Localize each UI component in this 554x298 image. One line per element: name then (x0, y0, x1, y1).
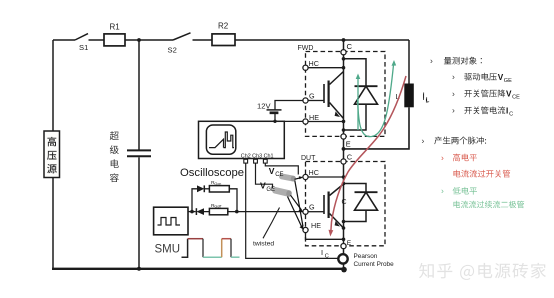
annotation 驱动电压 (464, 73, 497, 81)
SMU pulse icon (158, 218, 181, 226)
svg-text:twisted: twisted (253, 240, 274, 247)
wire DUT gate (308, 211, 324, 213)
svg-text:V: V (498, 73, 504, 82)
IGBT DUT emitter arrow (335, 221, 340, 227)
pin G terminal circle (FWD) (303, 98, 308, 103)
svg-text:CE: CE (512, 95, 520, 101)
wire Rgon to right post (229, 189, 237, 212)
wire right vertical upper (408, 40, 410, 84)
SMU box (154, 207, 188, 235)
FWD module dashed box (306, 52, 386, 137)
wire gate drive to DUT G (204, 211, 303, 213)
pin HC terminal circle (DUT) (303, 174, 308, 179)
annotation 开关管压降 (464, 90, 505, 98)
svg-text:S1: S1 (79, 43, 88, 52)
pin Ch3 stub (255, 158, 257, 161)
svg-text:FWD: FWD (298, 45, 314, 52)
oscilloscope screen icon (206, 125, 235, 154)
wire HE to line (FWD) (308, 121, 344, 123)
pointer twisted line (263, 208, 280, 239)
node bottom rail end (341, 267, 347, 273)
svg-text:V: V (269, 166, 275, 176)
wire left vertical lower (52, 178, 54, 269)
annotation 高电平 red (453, 154, 477, 162)
IGBT U-FWD gate wire (308, 100, 324, 102)
switch S2 (173, 33, 191, 40)
resistor RGon (209, 186, 229, 192)
wire Ch2 to Pearson probe (246, 163, 338, 258)
label 高压源 text (47, 137, 56, 147)
wire battery minus to HE rail (274, 113, 276, 122)
wire HC to line (DUT) (308, 176, 344, 178)
label 超级电容 char4 (110, 173, 119, 182)
pin Ch1 stub (264, 158, 266, 161)
pin HE terminal circle (DUT) (303, 227, 308, 232)
wire Rgon branch up (192, 189, 197, 212)
svg-text:HC: HC (309, 168, 319, 177)
wire R1 to S2 (125, 39, 173, 41)
transistor IGBT FWD (323, 84, 325, 103)
svg-text:Current Probe: Current Probe (354, 261, 395, 268)
probe lead VCE- to HE (295, 181, 303, 227)
diode D-on (197, 185, 204, 192)
svg-text:G: G (309, 202, 315, 211)
Pearson current probe ring (338, 254, 347, 263)
svg-text:GE: GE (266, 187, 275, 193)
annotation 电流流过续流二极管 green (454, 201, 525, 209)
DUT module dashed box (306, 162, 386, 246)
resistor R1 (104, 34, 125, 46)
probe VGE head (272, 186, 293, 197)
svg-text:C: C (347, 42, 353, 51)
annotation 产生两个脉冲 (434, 137, 486, 145)
pin G terminal circle (DUT) (303, 209, 308, 214)
green current arrow through diode (357, 76, 359, 130)
wire middle bridge vertical (343, 40, 345, 268)
label 超级电容 char1 (110, 131, 119, 140)
IGBT FWD emitter arrow (335, 111, 340, 117)
switch S1 (75, 34, 88, 40)
svg-text:Pearson: Pearson (354, 253, 378, 260)
svg-text:I: I (423, 91, 425, 101)
svg-text:Goff: Goff (214, 205, 222, 209)
label 高压源 text2 (47, 151, 57, 160)
svg-text:›: › (452, 72, 455, 82)
svg-text:CE: CE (275, 172, 283, 178)
svg-text:›: › (422, 135, 425, 145)
svg-text:12V: 12V (257, 101, 271, 110)
annotation 开关管电流 (464, 106, 505, 114)
node phase junction (342, 147, 346, 151)
green freewheel current loop curve (358, 63, 394, 137)
wire S1 to R1 (89, 39, 105, 41)
waveform SMU gate pulses (182, 239, 188, 258)
svg-text:GE: GE (504, 78, 512, 84)
node E terminal circle bottom (DUT) (341, 244, 346, 249)
svg-text:C: C (347, 152, 353, 161)
wire Ch1 to VCE probe (265, 163, 298, 175)
svg-text:DUT: DUT (301, 155, 316, 162)
pin HE terminal circle (FWD) (303, 119, 308, 124)
node dot diode branch top (342, 57, 346, 61)
svg-text:›: › (452, 88, 455, 98)
capacitor C (supercap) plates (127, 149, 151, 151)
wire HE kelvin bracket (DUT) (306, 233, 344, 240)
svg-text:R1: R1 (110, 23, 121, 32)
wire Ch3 to VGE probe (256, 163, 273, 188)
node dot diode bottom (342, 128, 346, 132)
probe lead VGE+ to G (291, 195, 302, 210)
annotation 量测对象 (444, 57, 482, 65)
svg-text:HE: HE (309, 113, 319, 122)
svg-text:›: › (441, 186, 444, 196)
resistor RGoff (209, 208, 227, 214)
probe lead VGE- to HE (288, 197, 303, 228)
annotation 低电平 green (453, 187, 477, 195)
svg-text:Ch2 Ch3 Ch1: Ch2 Ch3 Ch1 (241, 153, 274, 159)
svg-text:C: C (509, 111, 513, 117)
svg-text:Gon: Gon (214, 182, 221, 186)
wire top rail left segment (53, 39, 75, 41)
svg-text:›: › (441, 152, 444, 162)
node capacitor bottom junction (137, 267, 141, 271)
svg-text:I: I (506, 106, 508, 115)
label 高压源 text3 (47, 164, 57, 173)
annotation 电流流过开关管 red (454, 170, 511, 178)
node junction top of bridge (342, 38, 346, 42)
svg-text:Oscilloscope: Oscilloscope (180, 167, 244, 179)
svg-text:V: V (260, 181, 266, 191)
wire scope corner to HE circle (284, 120, 303, 122)
label 超级电容 char3 (111, 159, 119, 168)
svg-text:E: E (346, 139, 351, 148)
wire S2 to R2 (193, 39, 213, 41)
svg-text:V: V (506, 90, 512, 99)
diode D-off (196, 208, 204, 215)
svg-text:E: E (347, 240, 352, 247)
diode DUT antiparallel (344, 184, 367, 222)
pin module C terminal circle top (341, 50, 346, 55)
pin module E terminal circle (341, 134, 346, 139)
svg-text:G: G (309, 91, 315, 100)
diode FWD freewheeling (344, 59, 367, 130)
oscilloscope box U-scope (199, 121, 285, 158)
pin HC terminal circle (303, 65, 308, 70)
watermark 知乎@电源砖家 (419, 263, 546, 280)
voltage source box 高压源 (44, 131, 60, 178)
probe VCE head (279, 173, 297, 182)
wire capacitor top (138, 40, 140, 150)
label 超级电容 char2 (110, 145, 119, 154)
svg-text:C: C (342, 199, 347, 206)
wire HC to line (308, 67, 344, 69)
wire SMU output (188, 211, 196, 213)
wire left vertical upper (52, 40, 54, 131)
wire battery plus to G (275, 101, 303, 110)
probe lead VCE+ to HC (295, 178, 302, 180)
svg-text:›: › (452, 105, 455, 115)
node dot diode branch top (DUT) (342, 182, 346, 186)
node junction R1/capacitor (137, 38, 141, 42)
svg-text:HE: HE (311, 221, 321, 230)
transistor IGBT DUT (323, 195, 325, 214)
inductor L (black bar) (404, 84, 414, 108)
svg-text:HC: HC (309, 59, 319, 68)
pin Ch2 stub (245, 158, 247, 161)
pin module C terminal circle (DUT) (341, 159, 346, 164)
red switching current curve (331, 76, 406, 232)
wire inductor to phase node (344, 107, 410, 149)
wire capacitor bottom (138, 157, 140, 268)
wire bottom rail (52, 268, 344, 270)
resistor R2 (212, 34, 235, 46)
svg-text:I: I (321, 248, 323, 257)
svg-text:R2: R2 (218, 22, 229, 31)
svg-text:S2: S2 (168, 46, 177, 55)
svg-text:›: › (430, 56, 433, 66)
wire R2 to right corner (235, 39, 409, 41)
svg-text:SMU: SMU (155, 244, 181, 256)
